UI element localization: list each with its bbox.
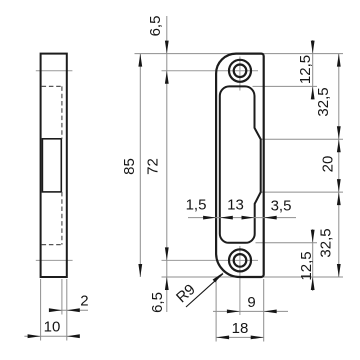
dimension row 1,5 / 13 / 3,5 xyxy=(186,196,296,219)
dimension 12,5 top right xyxy=(297,40,315,100)
side view hidden slot top edge (dashed) xyxy=(42,85,62,87)
screw hole top inner xyxy=(234,65,247,78)
svg-text:6,5: 6,5 xyxy=(149,292,166,313)
dimension 18 xyxy=(216,320,264,339)
extension line side view face inner (below) xyxy=(61,279,63,315)
svg-text:12,5: 12,5 xyxy=(298,251,315,280)
centerline hole 2 (horizontal) xyxy=(36,259,258,261)
dimension chain 32,5 / 20 / 32,5 right xyxy=(315,54,341,277)
svg-text:72: 72 xyxy=(144,158,161,175)
radius callout R9 xyxy=(173,272,224,307)
svg-text:3,5: 3,5 xyxy=(271,197,292,214)
centerline hole 1 (vertical) xyxy=(239,57,241,91)
svg-text:85: 85 xyxy=(121,158,138,175)
side view outline xyxy=(41,54,67,277)
centerline hole 1 (horizontal) xyxy=(36,70,258,72)
svg-text:20: 20 xyxy=(319,156,336,173)
extension line notch top xyxy=(262,138,344,140)
extension line side view right edge (below) xyxy=(66,279,68,341)
screw hole bottom outer xyxy=(229,249,251,271)
side view flange cutout (visible) xyxy=(42,139,61,192)
extension line notch bottom xyxy=(262,191,344,193)
front view latch slot xyxy=(220,86,261,242)
extension line plate top xyxy=(135,53,344,55)
svg-text:6,5: 6,5 xyxy=(147,16,164,37)
svg-text:32,5: 32,5 xyxy=(317,228,334,257)
side view hidden slot bottom edge (dashed) xyxy=(42,244,62,246)
svg-text:9: 9 xyxy=(247,294,255,311)
dimension 85 xyxy=(121,54,142,277)
extension line front plate left edge (below) xyxy=(215,279,217,342)
svg-text:18: 18 xyxy=(232,320,249,337)
svg-text:13: 13 xyxy=(227,196,244,213)
dimension 2 xyxy=(49,293,89,313)
centerline hole 2 (vertical) xyxy=(239,246,241,315)
extension line front plate right edge (below) xyxy=(263,279,265,342)
screw hole bottom inner xyxy=(234,254,247,267)
svg-text:1,5: 1,5 xyxy=(186,196,207,213)
side view hidden slot edge (vertical dashed) xyxy=(61,86,63,244)
screw hole top outer xyxy=(229,60,251,82)
extension line slot top xyxy=(253,85,318,87)
front view plate outline xyxy=(216,54,264,277)
extension line slot bottom xyxy=(256,242,318,244)
svg-text:10: 10 xyxy=(44,319,61,336)
svg-text:32,5: 32,5 xyxy=(315,87,332,116)
extension line plate bottom xyxy=(162,276,344,278)
dimension 72 with 6,5 top and 6,5 bottom xyxy=(144,16,168,313)
svg-text:2: 2 xyxy=(80,293,88,310)
dimension 12,5 bottom right xyxy=(298,229,315,291)
dimension 10 xyxy=(24,319,79,339)
extension line side view left edge (below) xyxy=(40,279,42,341)
dimension 9 xyxy=(213,294,288,313)
svg-text:12,5: 12,5 xyxy=(297,55,314,84)
